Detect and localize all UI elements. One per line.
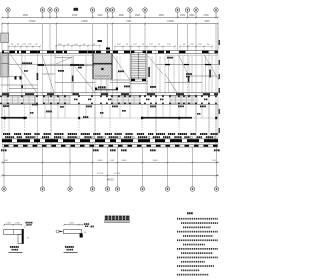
grid bubble bottom 2 <box>40 187 44 191</box>
grid bubble top 9 <box>143 8 147 18</box>
svg-text:7200: 7200 <box>126 21 132 23</box>
dimension text row1 <box>23 15 210 17</box>
grid leaders upper <box>2 24 218 50</box>
grid bubble top 8 <box>128 8 132 18</box>
grid bubble bottom 1 <box>2 187 6 191</box>
wall above corridor <box>2 93 218 95</box>
svg-text:2700: 2700 <box>72 15 78 17</box>
svg-text:17100: 17100 <box>97 173 104 175</box>
svg-text:6000: 6000 <box>204 21 210 23</box>
interior partition walls <box>1 52 218 96</box>
grid bubble bottom 6 <box>115 187 119 191</box>
grid bubble bottom 8 <box>165 187 169 191</box>
grid bubble top 2 <box>40 8 44 18</box>
svg-text:1500: 1500 <box>23 15 29 17</box>
grid bubble top 1 <box>6 8 10 18</box>
dimension line row1 <box>1 17 219 19</box>
grid bubble top 11 <box>185 8 189 18</box>
svg-text:3600: 3600 <box>135 15 141 17</box>
svg-text:15300: 15300 <box>29 21 36 23</box>
window dim line top <box>8 45 213 51</box>
grid bubble top 13 <box>214 8 218 18</box>
grid bubble top 10 <box>175 8 179 18</box>
bottom dim text2 <box>97 173 121 181</box>
bottom exterior wall <box>2 139 218 147</box>
dimension text row2 <box>29 21 210 23</box>
drawing title <box>91 216 131 228</box>
grid bubble top 5 <box>90 8 94 18</box>
bottom wall annotations <box>1 149 220 151</box>
svg-text:17100: 17100 <box>114 173 121 175</box>
svg-text:2400: 2400 <box>153 160 159 162</box>
interior vertical walls <box>2 27 220 147</box>
svg-text:3300: 3300 <box>97 15 103 17</box>
corridor columns <box>0 95 217 104</box>
entrance core walls <box>95 86 118 90</box>
shaft hatch <box>93 54 112 80</box>
top wall window fills <box>2 40 218 53</box>
grid bubble top 12 <box>194 8 198 18</box>
window dim text top <box>11 44 210 46</box>
stair core <box>130 51 148 84</box>
room labels lower <box>3 104 206 113</box>
bottom leader lines <box>4 147 217 187</box>
grid bubble bottom 7 <box>140 187 144 191</box>
balcony hatch top-left <box>1 33 9 43</box>
svg-text:3600: 3600 <box>119 15 125 17</box>
slab span diagonals <box>9 53 219 94</box>
svg-text:1500: 1500 <box>180 15 186 17</box>
room labels upper <box>22 57 211 88</box>
svg-text:3900: 3900 <box>98 160 104 162</box>
section detail 2 <box>56 223 89 253</box>
beam annotation row <box>3 133 218 138</box>
grid bubble bottom 10 <box>214 187 218 191</box>
top exterior wall lines <box>2 50 218 55</box>
grid bubble top 7 <box>110 8 114 18</box>
grid label blob top <box>74 8 79 11</box>
corridor slab band <box>2 95 219 104</box>
section detail 1 <box>3 222 32 253</box>
bottom dim text1 <box>4 160 216 162</box>
grid bubble bottom 3 <box>68 187 72 191</box>
grid bubble bottom 4 <box>90 187 94 191</box>
svg-text:3600: 3600 <box>159 15 165 17</box>
svg-text:34200: 34200 <box>107 178 115 181</box>
svg-text:3600: 3600 <box>189 15 195 17</box>
grid bubble bottom 5 <box>105 187 109 191</box>
grid bubble bottom 9 <box>190 187 194 191</box>
bottom dim line2 <box>1 175 219 177</box>
balcony hatch mid-left <box>1 53 9 78</box>
notes block <box>177 212 218 275</box>
svg-text:3900: 3900 <box>122 160 128 162</box>
grid bubble top 3 <box>48 8 52 18</box>
grid bubble top 4 <box>54 8 58 18</box>
corridor labels <box>74 99 207 101</box>
grid bubble top 6 <box>105 8 109 18</box>
bottom dim line1 <box>1 162 219 164</box>
svg-text:2700: 2700 <box>203 15 209 17</box>
svg-text:15300: 15300 <box>167 21 174 23</box>
dimension line row2 <box>1 23 219 25</box>
svg-text:15300: 15300 <box>81 21 88 23</box>
lower rooms walls <box>1 104 218 133</box>
